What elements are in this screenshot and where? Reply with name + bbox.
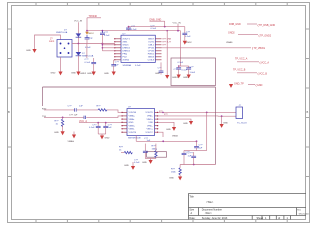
net label VCC_IN (top): [173, 22, 181, 31]
ground below 160k: [169, 177, 182, 181]
svg-text:VCC_IN: VCC_IN: [74, 21, 82, 23]
wire U2 row4 to gnd: [158, 122, 174, 127]
svg-text:XIN1: XIN1: [123, 42, 129, 44]
connector J2: [236, 105, 247, 124]
svg-text:❬TP_VBIAS: ❬TP_VBIAS: [252, 47, 266, 50]
junctions on bus: [102, 44, 104, 46]
wire TP2040 to VCC rail: [86, 18, 88, 31]
wire vertical right rail 215.5: [215, 87, 217, 165]
svg-text:❬VCC_A: ❬VCC_A: [259, 61, 269, 64]
svg-text:B: B: [8, 110, 10, 114]
svg-text:GND: GND: [124, 165, 129, 167]
U2 left pin names: [129, 111, 137, 134]
op IC U1 (upper transceiver): [121, 33, 155, 62]
svg-text:<RevCode>: <RevCode>: [299, 212, 311, 215]
U1 left pin dots: [114, 38, 115, 60]
svg-text:1uF: 1uF: [147, 140, 151, 142]
ground left bottom: [124, 162, 135, 170]
junction TX0/resistor: [62, 117, 64, 119]
power symbol GND2 (orange): [85, 32, 94, 35]
wire bottom bus: [136, 140, 196, 142]
svg-text:VOUTA: VOUTA: [129, 111, 137, 114]
net label TP2040: [87, 15, 101, 18]
capacitor C? 1uF bottom right: [188, 152, 197, 165]
svg-text:Size: Size: [189, 209, 194, 212]
power arrow VBIAS: [68, 132, 77, 144]
svg-text:GND2: GND2: [186, 42, 193, 44]
svg-text:GND: GND: [71, 73, 76, 75]
junction at 87,29.8: [86, 30, 88, 32]
svg-text:DRED2: DRED2: [123, 48, 131, 50]
wire right vertical 180.5: [180, 31, 182, 66]
capacitor C? below U1 right: [158, 62, 184, 75]
op IC U2 (lower): [127, 107, 155, 136]
ground at 221.6: [220, 123, 229, 128]
svg-text:GND: GND: [169, 178, 174, 180]
svg-text:CML1: CML1: [148, 45, 155, 47]
U1 left pin stubs: [115, 39, 122, 60]
border row ticks left: [8, 29, 12, 177]
net flag row 3: VBIAS: [226, 41, 265, 50]
capacitor C? 1uF bottom left: [143, 138, 151, 158]
svg-text:TP_VCC_A: TP_VCC_A: [235, 58, 248, 61]
svg-text:❬TP_GND2: ❬TP_GND2: [258, 34, 272, 37]
svg-text:GND: GND: [129, 122, 134, 124]
svg-text:0.1uF: 0.1uF: [182, 70, 188, 72]
diode D1 SMBT-5.0A: [56, 30, 81, 38]
title block text: [189, 196, 310, 221]
capacitor C? 1uF inline TX0: [69, 115, 86, 120]
svg-text:GND: GND: [142, 162, 147, 164]
svg-text:VINA+: VINA+: [129, 115, 136, 118]
svg-text:1uF: 1uF: [188, 155, 192, 157]
svg-text:FWD1: FWD1: [148, 54, 155, 56]
junction at 102.4,29.8: [102, 30, 104, 32]
svg-text:1.0uF: 1.0uF: [190, 72, 196, 74]
resistor R? pulldown: [55, 117, 64, 131]
U2 right pin stubs: [155, 112, 159, 132]
svg-text:B: B: [307, 110, 309, 114]
capacitor C? 0.1uF (VCC_A): [89, 123, 101, 134]
net flag row 4: VCC_A: [235, 58, 269, 65]
net flag row 6: GND_TP: [229, 83, 263, 88]
svg-text:GND1: GND1: [123, 45, 130, 47]
title block frame: [188, 194, 306, 220]
wire U2 row1 to J2: [158, 111, 236, 113]
svg-text:0.1uF: 0.1uF: [151, 28, 157, 30]
svg-text:VPCN: VPCN: [148, 48, 154, 50]
ground below R?: [54, 131, 65, 135]
wire drop to gnd left of box: [166, 31, 168, 75]
wire caps feed: [179, 65, 189, 67]
svg-text:GND2: GND2: [172, 77, 179, 79]
svg-text:SN75HVD08: SN75HVD08: [128, 138, 141, 140]
svg-text:of: of: [278, 217, 280, 220]
svg-text:DNB_GND: DNB_GND: [229, 23, 241, 26]
svg-text:GND: GND: [51, 73, 56, 75]
svg-text:GND: GND: [26, 50, 31, 52]
wire diode chain: [77, 44, 79, 53]
svg-text:GND: GND: [166, 129, 171, 131]
svg-text:SI5338A: SI5338A: [123, 64, 132, 67]
ground at rail end: [183, 41, 193, 45]
svg-text:0.1uF: 0.1uF: [131, 29, 137, 31]
capacitor C? 0.1uF left bottom: [134, 159, 140, 164]
svg-text:VBIAS: VBIAS: [172, 134, 179, 137]
U2 left pin dots: [121, 112, 122, 133]
wire RX0 line: [44, 110, 122, 113]
svg-text:Sunday, June 02, 2013: Sunday, June 02, 2013: [202, 217, 228, 220]
wire TX0 line: [44, 116, 122, 118]
svg-text:GND: GND: [104, 73, 109, 75]
wire join bottom caps: [145, 158, 156, 160]
svg-text:❬GND: ❬GND: [255, 84, 263, 87]
svg-text:GND: GND: [54, 132, 59, 134]
svg-text:FRQ: FRQ: [123, 54, 128, 56]
diode D2 SMBT-5.0A: [76, 52, 94, 58]
svg-text:XOUT1: XOUT1: [123, 39, 131, 41]
junction at 177,29.8: [166, 30, 168, 32]
svg-text:1Meg: 1Meg: [152, 148, 158, 150]
U2 right pin labels: [159, 111, 169, 116]
ground GND2b: [80, 72, 96, 76]
wire cap87 to gnd: [86, 44, 88, 59]
svg-text:VINC-: VINC-: [147, 126, 153, 128]
svg-text:0.1uF: 0.1uF: [134, 162, 140, 164]
wire vertical 206.7: [206, 112, 208, 150]
ground at 174: [166, 127, 176, 131]
U1 right pin labels: [163, 39, 172, 47]
svg-text:0.1uF: 0.1uF: [178, 62, 184, 64]
svg-text:0.1uF: 0.1uF: [104, 35, 110, 37]
svg-text:VOUTC: VOUTC: [145, 132, 153, 134]
svg-text:0.1uF: 0.1uF: [185, 36, 191, 38]
svg-text:Sheet: Sheet: [257, 217, 264, 220]
wire J? top pin to left GND: [35, 35, 61, 49]
svg-text:GND2: GND2: [88, 33, 95, 35]
svg-text:Title: Title: [189, 196, 194, 199]
capacitor C? 1uF mid: [182, 151, 197, 165]
svg-text:GND_TP: GND_TP: [234, 83, 244, 86]
svg-text:❬TP_DNB_GND: ❬TP_DNB_GND: [257, 24, 275, 27]
border column ticks top: [36, 3, 287, 6]
bypass caps group box (maroon): [171, 58, 216, 86]
svg-text:VBIAS: VBIAS: [68, 140, 75, 143]
svg-text:XOIN2: XOIN2: [123, 60, 130, 62]
svg-text:Date:: Date:: [189, 217, 195, 220]
resistor R? inline RX0: [97, 105, 108, 111]
ground bottom mid: [142, 160, 153, 164]
svg-text:CPCN: CPCN: [148, 51, 155, 53]
wire rail A (DNB_GND): [129, 26, 185, 28]
svg-text:C?? 1uF: C?? 1uF: [69, 115, 78, 117]
svg-text:GND7: GND7: [148, 39, 155, 41]
U1 right pin names: [148, 39, 155, 62]
capacitor C? 0.1uF at 87: [85, 35, 94, 49]
svg-text:GND: GND: [105, 137, 110, 139]
svg-text:GND3: GND3: [148, 57, 155, 59]
ground left of box: [155, 73, 169, 79]
ground GND (J?): [51, 72, 63, 76]
wire VCC rail: [87, 30, 181, 32]
DNB box around bottom R/C: [147, 152, 167, 158]
wire U2 row3 to gnd: [158, 119, 191, 121]
svg-text:<Doc>: <Doc>: [205, 212, 213, 215]
ground at 191: [183, 121, 193, 125]
ground far left: [26, 49, 37, 53]
svg-text:Document Number: Document Number: [202, 209, 222, 212]
svg-text:VCC_IN: VCC_IN: [173, 22, 181, 24]
svg-text:VOUTD: VOUTD: [145, 112, 153, 114]
svg-text:VIND+: VIND+: [146, 119, 153, 121]
ground GND (cap): [104, 72, 116, 76]
wire J? to diode node: [72, 43, 115, 45]
border row ticks right: [306, 29, 310, 177]
ground in box: [172, 75, 181, 80]
U2 left pin stubs: [122, 112, 127, 132]
svg-text:OUT1: OUT1: [148, 42, 155, 44]
svg-text:VINB-: VINB-: [129, 129, 135, 131]
svg-text:VDD: VDD: [148, 122, 153, 124]
wire rail drop left: [42, 87, 44, 106]
capacitor C? 1uF at 113.7: [111, 60, 119, 72]
U1 left pin names: [123, 39, 131, 62]
border column ticks bottom: [36, 220, 287, 223]
svg-text:GND2: GND2: [228, 32, 235, 35]
capacitor C? 1uF inline RX0: [68, 105, 84, 111]
capacitor C? 0.1uF in box: [174, 66, 188, 75]
wire VBIAS long: [162, 47, 252, 49]
U2 right pin names: [145, 112, 153, 134]
svg-text:0.1uF: 0.1uF: [85, 47, 91, 49]
wire bottom right horizontal: [180, 164, 215, 166]
resistor R? left bottom: [119, 147, 132, 154]
junction at 78.4,43.5: [78, 43, 80, 45]
capacitor C? 0.1uF above U1: [126, 26, 137, 31]
svg-text:0.1uF: 0.1uF: [89, 127, 95, 129]
capacitor C? 1uF (VCC_A): [103, 123, 112, 134]
svg-text:VINC+: VINC+: [146, 129, 153, 131]
wire D2 to gnd: [77, 56, 79, 72]
svg-text:COIL8: COIL8: [148, 60, 155, 62]
svg-text:Rev: Rev: [297, 210, 301, 212]
wire J? pin to gnd: [60, 57, 62, 72]
svg-text:❬VCC_B: ❬VCC_B: [257, 72, 267, 75]
wire long rail y=87: [43, 86, 216, 88]
connector J? (4-pin square): [49, 38, 72, 58]
wire VCC_A rail: [86, 122, 122, 124]
ground in box 2: [183, 75, 191, 80]
svg-text:VIND-: VIND-: [147, 116, 153, 118]
resistor R? 160k: [171, 165, 181, 178]
U1 right pin stubs: [155, 39, 161, 60]
svg-text:GND: GND: [183, 123, 188, 125]
svg-text:VBIAS: VBIAS: [226, 41, 233, 44]
svg-text:GND: GND: [155, 73, 160, 75]
net label VCC_IN (left): [74, 21, 82, 44]
svg-text:VINB+: VINB+: [129, 126, 136, 128]
svg-text:1uF: 1uF: [108, 127, 112, 129]
junction at 102.4,43.5: [102, 43, 104, 45]
ground VCC_A caps: [98, 134, 110, 139]
svg-text:VOUTB: VOUTB: [129, 132, 137, 134]
junction at 164.9,29.8: [164, 26, 166, 28]
svg-text:0.1uF: 0.1uF: [85, 62, 91, 64]
capacitor C? 0.1uF at rail end: [182, 27, 191, 41]
net label VCC_A: [79, 120, 87, 123]
svg-text:TP_VCC_B: TP_VCC_B: [233, 69, 246, 72]
net flag row 5: VCC_B: [233, 69, 267, 76]
wire to GND at 221.6: [221, 116, 223, 124]
resistor R? bottom: [152, 144, 158, 159]
capacitor C? 1.0uF in box: [186, 66, 195, 75]
wire U2 row2 to J2 pin2: [158, 115, 236, 117]
net label DNB_GND: [150, 19, 165, 27]
svg-text:1uF: 1uF: [79, 105, 83, 107]
svg-text:DRED2: DRED2: [123, 51, 131, 53]
svg-text:VINA-: VINA-: [129, 118, 135, 121]
svg-text:GND: GND: [223, 123, 228, 125]
svg-text:SMBT-5.0A: SMBT-5.0A: [82, 55, 94, 58]
svg-text:SMBT-5.0A: SMBT-5.0A: [56, 31, 68, 34]
svg-text:GND2: GND2: [80, 73, 87, 75]
capacitor C? 0.1uF at 93.7: [85, 58, 97, 72]
svg-text:0.1uF: 0.1uF: [135, 65, 141, 67]
svg-text:conn: conn: [49, 40, 55, 43]
svg-text:1uF: 1uF: [199, 148, 203, 150]
net flag row 2: GND2: [228, 32, 272, 38]
wire bus left of U1: [102, 44, 114, 51]
capacitor C? at 102.4 top rail: [100, 31, 110, 44]
svg-text:<Title>: <Title>: [206, 201, 214, 204]
ground GND2 (diodes): [71, 72, 81, 76]
U2 right pin dots: [157, 112, 158, 133]
svg-text:TC_SCLK: TC_SCLK: [237, 123, 247, 125]
net flag row 1: DNB_GND: [229, 23, 275, 27]
capacitor C? 1uF far right: [194, 141, 203, 150]
